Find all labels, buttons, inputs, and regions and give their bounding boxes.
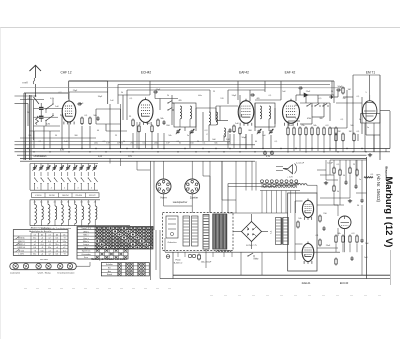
svg-text:+4: +4	[41, 238, 43, 240]
svg-text:60pF: 60pF	[156, 89, 161, 91]
wire output top rail	[228, 212, 288, 214]
output transformer T3	[276, 218, 282, 245]
table T2 grid	[77, 229, 153, 231]
svg-text:50k: 50k	[214, 143, 217, 145]
capacitor C23 right	[361, 198, 363, 200]
svg-text:160-254: 160-254	[62, 195, 69, 197]
capacitor C2 blob	[39, 115, 44, 117]
svg-text:EM 71: EM 71	[366, 71, 375, 75]
wire middle bus D	[20, 157, 367, 159]
trimmer bank column 3 switches	[61, 178, 64, 182]
svg-text:1n: 1n	[359, 179, 361, 181]
svg-text:51x: 51x	[63, 241, 66, 243]
resistor Rx350_168	[349, 167, 351, 169]
svg-text:4,1: 4,1	[80, 202, 82, 204]
band label strip	[32, 193, 100, 198]
svg-text:U 16-50: U 16-50	[35, 195, 41, 197]
trimmer bank frame	[30, 163, 98, 165]
trimmer bank column 1 trimmers	[34, 164, 36, 167]
transformer core laminated	[203, 215, 209, 250]
svg-text:Mittel x: Mittel x	[83, 240, 89, 243]
svg-text:+4: +4	[34, 241, 36, 243]
svg-text:+4: +4	[48, 250, 50, 252]
wire wafer link	[76, 265, 90, 267]
svg-text:0,4: 0,4	[56, 254, 59, 256]
wire bottom left vertical	[172, 252, 174, 278]
svg-text:+4: +4	[41, 254, 43, 256]
svg-text:2k: 2k	[167, 95, 169, 97]
capacitor C22	[351, 256, 353, 258]
resistor Rx357_170	[356, 169, 358, 171]
choke L12	[216, 251, 231, 253]
wire top bus 2	[118, 84, 330, 86]
wire long verticals mid	[120, 104, 122, 149]
resistor R29	[356, 235, 358, 237]
capacitor C1 blob	[39, 107, 44, 109]
wire mid horizontal links	[203, 175, 210, 177]
resistor R20	[335, 133, 337, 135]
trimmer bank column 4 trimmers	[74, 164, 76, 167]
IF transformer T2 coils	[255, 103, 275, 127]
svg-text:50k: 50k	[313, 125, 316, 127]
ground right col	[325, 181, 327, 183]
svg-text:Kurz x: Kurz x	[83, 237, 88, 240]
svg-text:2M: 2M	[338, 131, 341, 133]
resistor Rx334_186	[333, 185, 335, 187]
resistor R2	[81, 117, 83, 119]
capacitor C7 osc	[153, 91, 155, 93]
svg-text:Sperrkreis: Sperrkreis	[82, 250, 91, 253]
svg-text:2xEL41: 2xEL41	[302, 281, 311, 285]
wire middle bus C	[17, 154, 367, 156]
svg-text:~8: ~8	[41, 247, 43, 249]
resistor Rx334_168	[333, 167, 335, 169]
resistor R11	[293, 127, 295, 129]
svg-text:2M: 2M	[343, 98, 346, 100]
svg-text:30pF: 30pF	[98, 96, 103, 98]
wire long vertical left of sockets	[150, 161, 152, 280]
trimmer bank column 2 switches	[48, 178, 51, 182]
svg-text:EAF42: EAF42	[239, 71, 249, 75]
capacitor C21	[323, 226, 325, 228]
capacitor C25	[345, 180, 347, 182]
svg-text:51x: 51x	[41, 250, 44, 252]
trimmer C13	[258, 130, 260, 131]
wire middle bus B	[15, 151, 391, 153]
svg-text:~8: ~8	[63, 238, 65, 240]
svg-text:1M: 1M	[295, 105, 298, 107]
wire left single	[33, 100, 35, 140]
wafer switch disc 1	[13, 264, 18, 269]
wire speaker leads	[276, 166, 283, 168]
fuse F1	[166, 255, 170, 259]
svg-text:Quell - Klang: Quell - Klang	[38, 272, 51, 274]
switch S2a contact	[46, 105, 53, 110]
svg-text:UKW 3-4: UKW 3-4	[17, 247, 25, 249]
svg-text:x2: x2	[49, 254, 51, 256]
wire lower mid verticals	[202, 161, 204, 176]
wire psu verticals	[164, 238, 166, 252]
svg-text:Abgleichanordnung: Abgleichanordnung	[31, 226, 51, 229]
tube V2 ECH42	[138, 100, 153, 123]
power supply dashed enclosure	[163, 213, 234, 251]
wire top bus scan grey	[20, 87, 345, 89]
svg-text:100+150uF: 100+150uF	[201, 262, 212, 264]
svg-text:255-350: 255-350	[75, 195, 82, 197]
svg-text:d4: d4	[56, 234, 58, 236]
switch S3 tone	[306, 105, 307, 106]
trimmer C10	[191, 130, 193, 131]
resistor R5	[138, 125, 140, 127]
svg-text:50k: 50k	[168, 135, 171, 137]
vibrator transformer windings	[183, 216, 190, 246]
resistor R21	[342, 133, 344, 135]
svg-text:M 515: M 515	[19, 250, 24, 252]
socket J2 Zweiter	[185, 179, 200, 194]
svg-text:351-572: 351-572	[89, 195, 96, 197]
svg-text:CHF 12: CHF 12	[61, 71, 72, 75]
svg-text:~8: ~8	[48, 244, 50, 246]
svg-text:EAF 42: EAF 42	[285, 71, 296, 75]
svg-text:ECH42: ECH42	[141, 71, 152, 75]
coil L4 oscillator	[216, 112, 218, 125]
svg-text:4: 4	[37, 188, 38, 190]
svg-text:Stand: Stand	[107, 273, 112, 276]
resistor R6	[151, 125, 153, 127]
wire input links	[34, 108, 40, 110]
dial lamp P2	[270, 151, 274, 155]
svg-text:4: 4	[91, 188, 92, 190]
trimmer bank column 4 switches	[75, 178, 78, 182]
wire top bus 1	[69, 80, 334, 82]
svg-text:0,1uF: 0,1uF	[327, 163, 333, 165]
svg-text:5k: 5k	[337, 191, 339, 193]
resistor R26	[335, 235, 337, 237]
switch S2 band	[167, 102, 168, 103]
svg-text:Fern: Fern	[84, 256, 88, 259]
svg-text:12V: 12V	[128, 156, 132, 158]
zigzag resistor R31	[364, 177, 373, 179]
svg-text:Drucktastensatze: Drucktastensatze	[58, 271, 76, 274]
vibrator unit	[166, 216, 178, 238]
table T2 switching table	[77, 227, 153, 250]
resistor R25	[319, 239, 321, 241]
svg-text:Taste 1 2 3: Taste 1 2 3	[81, 227, 90, 230]
svg-text:2n: 2n	[187, 135, 189, 137]
svg-text:Ortssender: Ortssender	[81, 253, 91, 256]
resistor R4	[132, 119, 134, 121]
resistor R27	[342, 235, 344, 237]
resistor R3	[89, 117, 91, 119]
tube V5 EM71 magic eye	[363, 101, 377, 122]
wire V1 cathode drop	[68, 122, 70, 148]
tube V3 EAF42	[238, 101, 254, 124]
svg-text:Ein: Ein	[108, 268, 111, 270]
resistor Rx340_170	[339, 169, 341, 171]
wire V1 top box	[69, 80, 108, 82]
svg-text:4: 4	[64, 188, 65, 190]
wire bottom bus 1	[173, 274, 390, 276]
resistor R18	[335, 127, 337, 129]
svg-text:0,4: 0,4	[48, 241, 51, 243]
svg-text:Lang x: Lang x	[83, 244, 89, 246]
tube V4 EAF42 second	[283, 101, 300, 124]
coil bank top wire	[30, 199, 100, 201]
svg-text:4: 4	[51, 188, 52, 190]
coil bank L8	[60, 200, 62, 205]
wire V2 drops	[132, 133, 134, 148]
svg-text:1k: 1k	[123, 141, 125, 143]
capacitor C11	[229, 128, 231, 130]
wire V4 top	[280, 81, 282, 100]
svg-text:25pF: 25pF	[73, 90, 78, 92]
svg-text:4: 4	[78, 188, 79, 190]
svg-text:+ 12V: + 12V	[287, 177, 293, 179]
box under EM71	[361, 114, 380, 124]
svg-text:6,3V: 6,3V	[266, 156, 271, 158]
junction dots on buses	[27, 148, 28, 149]
svg-text:51x: 51x	[55, 244, 58, 246]
resistor R19	[342, 87, 344, 89]
svg-text:6,3V: 6,3V	[60, 150, 65, 152]
wire far right verticals	[389, 111, 391, 149]
svg-text:~8: ~8	[63, 254, 65, 256]
resistor R14	[311, 127, 313, 129]
svg-text:1n: 1n	[367, 127, 369, 129]
coil L3 oscillator	[209, 112, 211, 125]
capacitor C6	[97, 116, 99, 118]
svg-text:Abgleichplan der Bereiche: Abgleichplan der Bereiche	[29, 230, 51, 233]
svg-text:25nF: 25nF	[306, 91, 311, 93]
svg-text:Platte: Platte	[175, 259, 181, 262]
svg-text:0,4: 0,4	[33, 247, 36, 249]
svg-text:5k: 5k	[121, 92, 123, 94]
svg-text:0,4: 0,4	[63, 250, 66, 252]
wafer switch strip outline	[10, 263, 77, 270]
bridge rectifier B250C75	[242, 222, 262, 242]
svg-text:1M: 1M	[348, 89, 351, 91]
wire psu bottom stubs	[177, 252, 179, 257]
socket J1 Horer	[156, 179, 171, 194]
resistor R30	[335, 258, 337, 260]
wire V3 drops	[233, 134, 235, 148]
svg-text:e5: e5	[63, 234, 65, 236]
svg-text:20k: 20k	[28, 135, 31, 137]
table T3 grid	[101, 265, 149, 267]
ground EM71	[369, 153, 371, 155]
node input junction	[35, 95, 37, 97]
svg-text:4,1: 4,1	[54, 202, 56, 204]
svg-text:4,1: 4,1	[40, 202, 42, 204]
diode D1 detector	[304, 93, 308, 97]
tube V6 EL41	[302, 201, 313, 218]
capacitor C8	[163, 120, 165, 122]
resistor R17	[329, 127, 331, 129]
wire middle bus E	[20, 160, 255, 162]
wire socket drop	[191, 194, 193, 213]
wafer switch disc 3	[36, 264, 41, 269]
trimmer bank column 1 switches	[35, 178, 38, 182]
electrolytic C20	[198, 254, 200, 256]
wire extra horizontals top	[118, 94, 150, 96]
antenna	[30, 65, 42, 71]
svg-text:50pF: 50pF	[79, 103, 84, 105]
wire output stage links	[295, 200, 303, 202]
coil bank L7	[47, 200, 49, 205]
svg-text:0,4: 0,4	[56, 238, 59, 240]
svg-text:Zerhacker: Zerhacker	[167, 242, 176, 244]
wire psu bottom rail	[165, 251, 340, 253]
svg-text:(25): (25)	[94, 143, 98, 145]
svg-text:+4: +4	[63, 244, 65, 246]
svg-text:4,1: 4,1	[94, 202, 96, 204]
svg-text:a1: a1	[34, 234, 36, 236]
wire middle bus A	[15, 148, 391, 150]
resistor R15	[317, 127, 319, 129]
svg-text:6,8k: 6,8k	[50, 98, 54, 100]
svg-text:51x: 51x	[33, 254, 36, 256]
table T1 grid	[30, 233, 32, 256]
svg-text:Stellung der Schalter von hint: Stellung der Schalter von hinten	[91, 258, 127, 261]
resistor R22	[353, 133, 355, 135]
resistor R16	[323, 127, 325, 129]
svg-text:5n: 5n	[359, 119, 361, 121]
svg-text:B 250 C 75: B 250 C 75	[246, 245, 257, 247]
resistor R8	[239, 127, 241, 129]
svg-text:6,8k: 6,8k	[46, 124, 50, 126]
svg-text:c3: c3	[49, 234, 51, 236]
svg-text:UKW x: UKW x	[83, 231, 89, 233]
svg-text:1M: 1M	[349, 131, 352, 133]
svg-text:51x: 51x	[48, 247, 51, 249]
svg-text:Netz: Netz	[254, 258, 260, 261]
resistor R13	[305, 127, 307, 129]
wafer switch disc 4	[46, 264, 51, 269]
wire extra verticals top	[122, 95, 124, 120]
wire right drops	[335, 142, 337, 152]
resistor R10	[287, 127, 289, 129]
svg-text:Zweiter: Zweiter	[190, 197, 198, 200]
svg-text:x2: x2	[49, 238, 51, 240]
svg-text:B-4017-2: B-4017-2	[174, 263, 183, 265]
page top scan edge	[0, 27, 400, 29]
wire trimmer bank bottom	[30, 189, 98, 191]
svg-text:n mV: n mV	[22, 82, 28, 85]
wafer switch disc 6	[67, 264, 72, 269]
svg-text:kHz: kHz	[198, 95, 201, 97]
svg-text:4,1: 4,1	[67, 202, 69, 204]
wire mid horizontals right	[228, 183, 300, 185]
resistor R7	[157, 119, 159, 121]
svg-text:0,4: 0,4	[41, 244, 44, 246]
trimmer bank column 5 switches	[88, 178, 91, 182]
svg-text:10k: 10k	[298, 218, 301, 220]
IF transformer T1 coils	[174, 103, 196, 127]
capacitor C27 psu	[188, 254, 191, 257]
page edge mark right	[390, 250, 392, 285]
switch S2b contact	[46, 116, 53, 121]
wire coil bank bottom	[30, 225, 130, 227]
svg-text:UKW 1-2: UKW 1-2	[17, 244, 25, 246]
capacitor C12	[250, 94, 252, 96]
wire left bus pair A	[23, 93, 25, 160]
svg-text:Drucktasten: Drucktasten	[34, 155, 47, 158]
wire right col horizontals extra	[320, 174, 334, 176]
table T1 frame	[13, 230, 68, 256]
svg-text:+4: +4	[56, 247, 58, 249]
trimmer bank column 5 trimmers	[87, 164, 89, 167]
wire right col verticals extra	[333, 160, 335, 168]
wafer switch disc 2	[23, 264, 28, 269]
diode D2	[331, 95, 333, 99]
svg-text:Schalter: Schalter	[106, 263, 113, 266]
svg-text:25uF: 25uF	[326, 245, 331, 247]
coil bank L9	[74, 200, 76, 205]
wire bottom bus 2	[160, 278, 390, 280]
wire mid right horizontals	[330, 159, 367, 161]
svg-text:~8: ~8	[34, 250, 36, 252]
svg-text:50k: 50k	[350, 125, 353, 127]
svg-text:(Ab Nr. 15613): (Ab Nr. 15613)	[376, 174, 381, 203]
svg-text:von vorn: von vorn	[40, 259, 48, 261]
svg-text:Aus: Aus	[108, 270, 111, 273]
switch S4 Netz	[247, 255, 248, 256]
trimmer bank column 2 trimmers	[47, 164, 49, 167]
svg-text:50-158: 50-158	[49, 195, 55, 197]
trimmer C9	[177, 130, 179, 131]
coil bank L10	[87, 200, 89, 205]
speaker horn	[283, 165, 293, 174]
wire V2 top rect	[117, 85, 119, 105]
svg-text:x2: x2	[63, 247, 65, 249]
svg-text:(50): (50)	[154, 143, 158, 145]
wire phase splitter links	[317, 204, 338, 206]
svg-text:25k: 25k	[301, 125, 304, 127]
svg-text:1+0,1uF: 1+0,1uF	[296, 163, 305, 165]
coil bank L6	[34, 200, 36, 205]
svg-text:ECC40: ECC40	[340, 281, 349, 285]
trimmer C14	[270, 130, 272, 131]
svg-text:Wellenb.: Wellenb.	[18, 238, 26, 240]
transformer core dark block	[213, 214, 227, 249]
wire right top verticals	[379, 75, 381, 160]
svg-text:x2: x2	[56, 250, 58, 252]
resistor R9	[233, 125, 235, 127]
wire right column verticals	[366, 157, 368, 279]
capacitor C24 right	[361, 238, 363, 240]
tube V7 EL41	[302, 244, 314, 262]
svg-text:~8: ~8	[56, 241, 58, 243]
resistor R28	[349, 235, 351, 237]
svg-text:470k: 470k	[307, 118, 311, 120]
output stage frame	[288, 193, 317, 271]
capacitor C5	[77, 103, 79, 105]
page bottom tick marks	[24, 288, 27, 290]
wire IF1 links	[196, 107, 216, 109]
tube V1 CHF12	[62, 101, 76, 122]
switch S1 antenna	[34, 97, 40, 104]
resistor R1 zigzag	[36, 116, 39, 125]
svg-text:Lautsprecher: Lautsprecher	[173, 201, 188, 204]
capacitor C16 to EM71	[336, 89, 338, 91]
wire left bus pair B	[29, 95, 31, 160]
svg-text:x2: x2	[41, 241, 43, 243]
table T2 extension rows	[77, 249, 128, 259]
dial lamp P1	[263, 151, 267, 155]
resistor R24	[319, 215, 321, 217]
resistor R23	[297, 221, 299, 223]
wire terminal strip drops	[260, 190, 300, 192]
